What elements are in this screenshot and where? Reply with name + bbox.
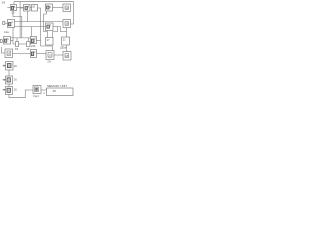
block U16 (bottom left box 2) [6,87,13,95]
block U13 (row4 right box, double outline) [63,52,71,61]
wire U6 bottom to U3b top [12,28,14,41]
block U11 (row4 left box, double outline) [5,49,13,58]
inner cell of U16 [7,88,10,92]
top bus wire with right-edge drop into U7 [14,2,74,24]
block U10 (row3 right box) [62,37,70,45]
tick bus to S1 top [16,38,18,42]
wire U2 to U3 [30,7,32,9]
staircase wire x40.5 into U12 top [41,46,53,51]
inner cell of U6 [9,23,11,26]
small box S1 [16,42,19,47]
svg-text:MEMORY UNIT: MEMORY UNIT [47,84,67,88]
inner cell of U17 [35,87,39,92]
inner cell of U8 [47,25,50,28]
block U9 (row3 middle box) [46,38,54,46]
inner cell of U7 [65,22,68,26]
wire S2 to U3c [30,43,31,45]
svg-text:25a: 25a [62,46,67,49]
block U4 (top row box 4) [46,4,53,11]
block U15 (bottom left box 1) [6,76,13,84]
wire U2 bottom to bus21.5 [27,11,29,22]
arrow input left of U15 [3,79,6,81]
wire U4 bottom jog to x43.5 vertical [44,11,48,38]
staircase wire bus26.5 to U10 top [61,27,67,32]
inner cell of U3b [5,39,7,42]
block U12a (row4 mid-left box) [31,50,37,58]
stub from x40.5 into U3c right side [37,40,41,42]
wire U15 bottom to U16 top [8,84,10,87]
svg-text:26: 26 [53,89,57,93]
block U3c (row3 mid-left box) [31,37,37,44]
wire from U3 top bus into U3c top [31,27,33,37]
block U2 (top row box 2) [24,5,31,12]
arrow source symbol left of U3b [0,40,2,43]
block U7 (row2 right box, double outline) [63,20,71,28]
inner cell of U5 [65,6,68,9]
inner cell of U1 [11,6,13,9]
block U12 (row4 middle box, double outline) [46,51,54,60]
wire U4 to U5 [53,7,64,9]
svg-text:16: 16 [14,78,17,82]
svg-text:16: 16 [14,88,17,92]
arrow input left of U16 [3,89,6,91]
wire into U2 left [20,7,23,9]
bus wire y37.7 [11,37,31,39]
svg-text:14a: 14a [4,30,9,34]
wire U16 bottom along page bottom up into U17 input [9,90,33,98]
block U3 (top row box 3) [32,5,38,12]
bus wire y26.5 left segment [15,26,46,28]
wire U7 bottom down to U10 top [66,28,68,38]
inner cell of U14 [7,64,11,68]
block U14 (row5 left box) [6,62,14,71]
svg-text:24: 24 [2,0,6,4]
wire input to U1 [7,7,10,9]
small box S2 [27,42,31,47]
wire U14 bottom to U15 top [8,70,10,76]
block U5 (top row box 5, double outline) [63,4,71,12]
wire U1 bottom jog to x21.8 vertical [13,11,22,38]
arrow input left of U14 [3,65,6,67]
block U18 (bottom wide box) [47,88,74,96]
block U17 (bottom middle box) [33,86,41,94]
staircase wire bus26.5 to U9 top left [53,27,58,38]
svg-text:16: 16 [14,64,17,68]
block U8 (row2 middle box) [46,23,54,31]
svg-text:Fig.2: Fig.2 [33,95,39,98]
tick bus to S2 top [27,38,29,42]
bus wire y53.6 [13,53,31,55]
wire U10 bottom to U13 top [66,45,68,52]
inner cell of U4 [47,6,49,9]
inner cell of U13 [65,54,69,58]
wire U12 to U13 [54,54,63,56]
arrow source symbol left of U6 [3,22,5,25]
inner cell of U12a [31,52,33,56]
inner cell of U11 [7,51,11,55]
wire S1 to S2 [19,43,27,45]
bus wire y26.5 right segment [53,26,61,28]
wire U3b right jog down to series resistors [11,41,16,44]
inner cell of U2 [25,7,27,10]
block U6 (row2 left box) [8,20,15,28]
wire U17 to U18 [41,89,47,91]
wire left input to U11 [1,47,5,53]
wire U12a to U12 [37,53,47,55]
wire into U6 [5,22,8,24]
svg-text:24b: 24b [31,44,36,48]
svg-text:17: 17 [47,38,51,42]
tick inside U17 inner [35,88,37,91]
wire U3 output down long vertical x40.5 [38,8,41,46]
inner cell of U15 [7,78,10,82]
block U1 (top row box 1) [11,5,17,11]
bus wire y21.5 [15,21,64,23]
vertical wire from top bus at x20 [19,2,21,38]
block U3b (row3 left box) [4,37,11,45]
inner cell of U12 [48,53,52,58]
inner cell of U3c [31,39,34,43]
wire U1 to U2 [17,7,24,9]
